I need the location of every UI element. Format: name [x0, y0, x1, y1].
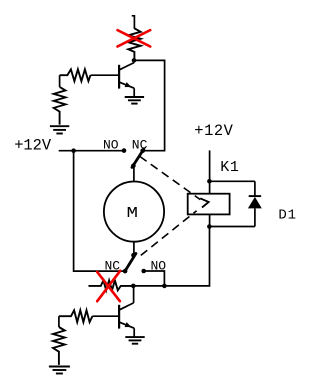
node NC contact bottom [123, 269, 128, 274]
wire collector Q2 [133, 286, 135, 303]
wire relay top to diode [209, 180, 255, 182]
node pivot bottom [131, 253, 136, 258]
switch arm bottom (on NC) [125, 254, 136, 272]
wire pivot to motor top [133, 166, 135, 182]
wire corner to R1 [59, 75, 61, 87]
svg-text:D1: D1 [278, 208, 296, 224]
svg-text:K1: K1 [220, 159, 239, 176]
wire collector node to NC rail [134, 59, 165, 151]
svg-text:NC: NC [105, 258, 121, 273]
node NO contact top [122, 148, 127, 153]
ground under R3 [49, 367, 70, 374]
node junction bottom rail left [131, 284, 136, 289]
resistor crossed-out bottom (horizontal) [89, 280, 134, 290]
wire +12V rail top [59, 150, 124, 152]
red X over top resistor [118, 30, 151, 46]
relay coil K1 box [188, 194, 230, 215]
wire NO bottom to rail [144, 271, 165, 286]
wire bottom rail to relay [133, 227, 209, 286]
node relay bottom [207, 224, 212, 229]
wire +12V to relay coil [209, 150, 211, 193]
wire left rail down to bottom NC [74, 151, 126, 271]
wire motor bottom to pivot [133, 242, 135, 256]
switch arm top (on NC) [132, 149, 144, 168]
transistor Q1 (NPN, top) [119, 63, 134, 97]
svg-text:+12V: +12V [14, 137, 52, 155]
node junction bottom rail right [162, 284, 167, 289]
relay armature chevron [200, 198, 209, 207]
node NC contact top [140, 148, 145, 153]
diode D1 [248, 181, 262, 226]
svg-text:NC: NC [132, 138, 148, 153]
wire base Q1 [91, 74, 119, 76]
node collector Q1 [132, 58, 137, 63]
svg-text:M: M [127, 205, 139, 222]
resistor R2 (horizontal, base of Q1) [60, 69, 91, 81]
node relay top [207, 179, 212, 184]
linkage dashed lower [141, 211, 197, 256]
svg-text:+12V: +12V [194, 122, 233, 140]
transistor Q2 (NPN, bottom) [119, 303, 134, 337]
resistor R4 (horizontal, base of Q2) [59, 310, 93, 322]
resistor crossed-out top (vertical) [128, 28, 140, 58]
node pivot top [131, 163, 136, 168]
wire corner to R3 [58, 316, 60, 327]
wire relay bottom to diode [209, 226, 255, 228]
motor M1 [104, 182, 164, 242]
ground under Q2 [125, 337, 144, 344]
red X over bottom resistor [97, 271, 120, 301]
wire top pin of L1 [132, 16, 134, 28]
resistor R1 (vertical, to ground) [54, 87, 66, 125]
node +12V junction [71, 148, 76, 153]
ground under Q1 [125, 97, 144, 104]
wire relay coil bottom [209, 214, 211, 228]
svg-text:NO: NO [103, 138, 119, 153]
wire base Q2 [92, 315, 118, 317]
linkage dashed upper [140, 156, 201, 199]
ground under R1 [50, 126, 69, 133]
node NO contact bottom [141, 269, 146, 274]
resistor R3 (vertical, to ground) [53, 327, 65, 365]
